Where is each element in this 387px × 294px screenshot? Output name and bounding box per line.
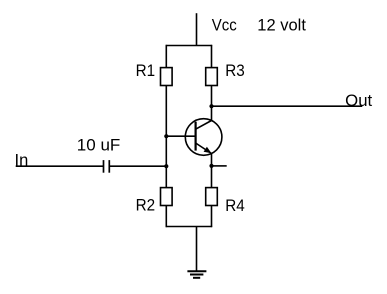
wire R3 bottom lead to collector <box>211 86 213 121</box>
wire emitter stub right <box>212 165 227 167</box>
transistor Q1 emitter arrowhead <box>204 147 212 154</box>
svg-text:R2: R2 <box>136 196 156 214</box>
wire ground lead vertical <box>196 227 198 272</box>
wire Vcc lead vertical <box>196 13 198 45</box>
wire R3 top lead <box>211 45 213 68</box>
node emitter junction <box>209 164 213 168</box>
transistor Q1 circle <box>185 119 222 156</box>
svg-text:Out: Out <box>345 92 372 110</box>
transistor Q1 collector stroke <box>196 121 212 130</box>
wire emitter lead down <box>211 154 213 188</box>
capacitor C1 plates <box>104 160 110 173</box>
node collector junction <box>209 104 213 108</box>
svg-text:Vcc: Vcc <box>212 17 237 35</box>
svg-text:12 volt: 12 volt <box>257 17 306 35</box>
ground <box>187 271 206 278</box>
wire left column R1 to R2 <box>165 86 167 188</box>
node In junction <box>164 164 168 168</box>
svg-text:R1: R1 <box>136 62 156 80</box>
transistor Q1 base bar <box>195 122 197 151</box>
transistor Q1 emitter stroke <box>196 143 212 154</box>
wire R1 top lead <box>165 45 167 68</box>
resistor R1 <box>161 68 173 86</box>
wire R4 bottom lead <box>211 206 213 228</box>
node base junction <box>164 134 168 138</box>
svg-text:10 uF: 10 uF <box>77 136 121 154</box>
resistor R3 <box>206 68 218 86</box>
wire bottom rail horizontal <box>166 226 213 228</box>
wire top rail horizontal <box>166 45 213 47</box>
svg-text:R4: R4 <box>225 197 245 215</box>
resistor R2 <box>161 188 173 206</box>
wire In left segment <box>16 165 104 167</box>
wire R2 bottom lead <box>165 206 167 228</box>
resistor R4 <box>206 188 218 206</box>
wire In right segment to base column <box>109 165 166 167</box>
wire Out horizontal <box>212 105 363 107</box>
wire base horizontal <box>166 135 195 137</box>
svg-text:R3: R3 <box>225 62 245 80</box>
